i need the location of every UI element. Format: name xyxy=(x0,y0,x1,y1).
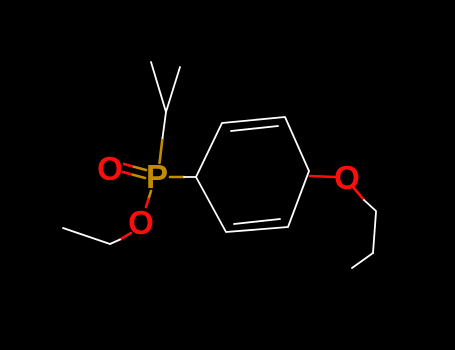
wire aromatic inner line bottom xyxy=(234,219,280,224)
svg-text:P: P xyxy=(146,158,168,195)
svg-text:O: O xyxy=(97,150,123,187)
wire aryl-O bond (right) xyxy=(310,176,335,177)
wire aromatic inner line top xyxy=(231,126,278,131)
wire P-aryl bond xyxy=(170,176,184,179)
wire O-CH2 bond (ester) xyxy=(120,233,131,240)
benzene ring C6H4 xyxy=(196,117,309,232)
wire P-C bond up to isopropyl CH xyxy=(160,138,163,163)
wire CH-CH3 left branch xyxy=(151,62,166,112)
wire CH2-CH3 bond (ester ethyl) xyxy=(63,228,110,244)
wire O-CH2 bond (right chain) xyxy=(353,187,364,200)
svg-text:O: O xyxy=(128,204,154,241)
wire CH-CH3 right branch xyxy=(166,67,180,112)
wire CH2-CH2 bond (right chain vertical) xyxy=(373,212,376,253)
wire P=O double bond upper line xyxy=(63,62,376,268)
wire P=O double bond lower line xyxy=(123,172,133,175)
wire P-O ester bond xyxy=(149,191,152,199)
wire CH2-CH3 bond (right chain end) xyxy=(352,253,373,268)
